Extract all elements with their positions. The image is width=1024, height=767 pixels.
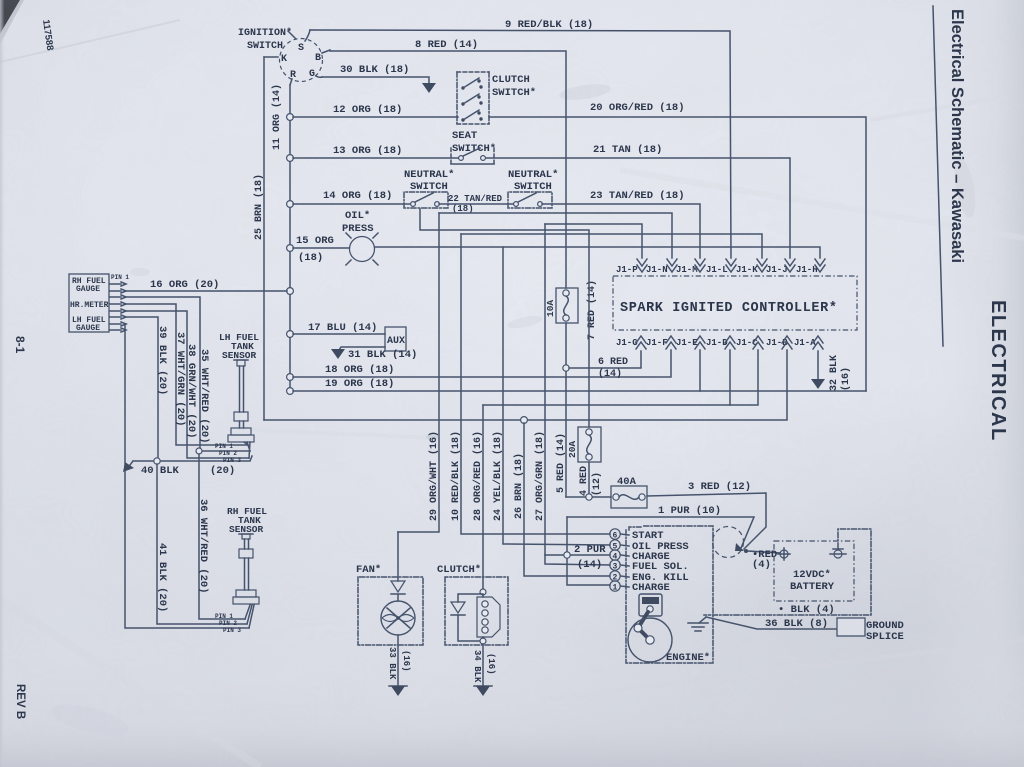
wire 7 RED (14) bbox=[566, 280, 598, 497]
pin J1-P bbox=[616, 259, 647, 275]
pin J1-C bbox=[736, 336, 763, 349]
wire 19 ORG (18) to J1-E and 20ORG loop bbox=[293, 350, 866, 391]
pin J1-K bbox=[736, 259, 767, 275]
wire to J1-H from lamp bbox=[375, 247, 820, 258]
pin J1-E bbox=[676, 336, 705, 349]
wire 12 ORG (18) bbox=[293, 104, 458, 117]
wire 23 TAN/RED (18) to J1-M bbox=[542, 190, 700, 258]
wire 6 RED (14) to J1-G bbox=[563, 351, 641, 380]
wire 27 ORG/GRN feed to J1-P bbox=[545, 224, 642, 258]
wire 17 BLU (14) bbox=[293, 322, 385, 334]
terminal bracket bbox=[629, 527, 641, 530]
wire 41 BLK (20) bbox=[156, 464, 247, 624]
engine piston bbox=[639, 594, 662, 616]
wire 25 BRN bottom run to J1-B bbox=[264, 350, 787, 423]
wire 28 ORG/RED (16) vertical bbox=[472, 405, 484, 589]
pin J1-D bbox=[706, 336, 735, 349]
pin J1-F bbox=[646, 336, 676, 349]
ground splice box bbox=[837, 618, 904, 643]
wire 29 ORG/WHT (16) vertical bbox=[398, 213, 440, 532]
ignition switch SW1 bbox=[238, 27, 330, 85]
wire 14 ORG (18) bbox=[293, 190, 411, 204]
node circles on 11 ORG bus bbox=[287, 114, 294, 121]
wire 10 RED/BLK feed to J1-K bbox=[461, 234, 762, 258]
pin J1-A bbox=[794, 336, 823, 349]
battery plus terminal bbox=[778, 548, 790, 560]
wire 2 PUR (14) vertical bbox=[545, 517, 610, 585]
wire 29 ORG/WHT feed to J1-N bbox=[439, 213, 672, 258]
pin J1-B bbox=[766, 336, 792, 349]
seat switch SW3 bbox=[451, 130, 496, 164]
wire 4 RED (12) bbox=[579, 462, 603, 497]
pin J1-J bbox=[766, 259, 795, 275]
starter M1 bbox=[713, 527, 744, 558]
neutral switch SW5 bbox=[508, 169, 558, 208]
clutch switch SW2 bbox=[457, 72, 536, 124]
wire 15 ORG (18) bbox=[293, 235, 349, 264]
pin J1-N bbox=[646, 259, 677, 275]
wire 5 RED (14) label bbox=[555, 433, 567, 493]
wire 35 WHT/RED (20) bbox=[126, 297, 250, 451]
wire 10 RED/BLK (18) vertical bbox=[450, 234, 610, 534]
wire 18 ORG (18) to J1-F bbox=[293, 350, 671, 377]
wire 36 WHT/RED (20) bbox=[196, 448, 245, 619]
wire 39 BLK (20) bbox=[125, 317, 249, 628]
wire 13 ORG (18) bbox=[293, 145, 461, 158]
pin J1-G bbox=[616, 336, 646, 349]
faint paper creases bbox=[0, 20, 180, 62]
fuse F3 40A bbox=[611, 476, 647, 508]
dark photo corner top-left bbox=[0, 0, 20, 34]
wire 40 BLK (20) with ground arrow bbox=[123, 456, 252, 477]
wire 5 RED horizontal to 40A bbox=[566, 494, 611, 500]
spark ignited controller U1 bbox=[613, 276, 857, 330]
pin J1-H bbox=[796, 259, 825, 275]
wire 37 WHT/GRN (20) bbox=[126, 304, 248, 445]
wire 22 TAN/RED (18) bbox=[439, 194, 514, 214]
wire 36 BLK (8) to ground splice bbox=[706, 617, 837, 630]
pin J1-M bbox=[676, 259, 705, 275]
engine terminal 6 START bbox=[610, 529, 664, 542]
gauge cluster box bbox=[69, 274, 129, 333]
wire 38 GRN/WHT (20) bbox=[126, 311, 249, 458]
paper texture noise bbox=[0, 0, 1, 1]
wire 1 PUR (10) to starter bbox=[567, 505, 754, 548]
engine terminal 3 FUEL SOL bbox=[610, 560, 689, 573]
engine terminal 5 OIL PRESS bbox=[610, 540, 689, 553]
pin J1-L bbox=[706, 259, 736, 275]
neutral switch SW4 bbox=[404, 169, 454, 208]
battery BT1 bbox=[774, 541, 854, 601]
wire 34 BLK (16) with ground arrow bbox=[472, 644, 496, 696]
wire 26 BRN (18) vertical bbox=[513, 423, 610, 576]
wire 11 ORG (14) vertical bbox=[271, 84, 290, 391]
engine terminal 4 CHARGE bbox=[610, 550, 670, 563]
wire 27 ORG/GRN (18) vertical bbox=[534, 224, 610, 565]
wire 8 RED (14) bbox=[330, 39, 566, 288]
fan motor M2 bbox=[356, 532, 423, 645]
engine E1 dash-dot box bbox=[626, 526, 713, 664]
gauge connector pins bbox=[110, 282, 126, 332]
wire 25 BRN (18) vertical bbox=[253, 57, 265, 420]
wire 28 ORG/RED top run to J1-D / J1-C bbox=[483, 350, 758, 405]
wire 20 ORG/RED (18) bbox=[489, 102, 866, 391]
oil pressure lamp B1 bbox=[342, 210, 378, 265]
starter feed arrowhead and dot bbox=[735, 543, 780, 571]
engine terminal 2 ENG KILL bbox=[610, 571, 689, 584]
engine ground bars bbox=[688, 617, 708, 631]
wire 9 RED/BLK (18) to J1-L bbox=[310, 19, 731, 258]
LH fuel tank sensor bbox=[215, 332, 259, 464]
wire 3 RED (12) to starter bbox=[647, 481, 766, 549]
battery negative cable dash-dot bbox=[704, 529, 871, 616]
wire 31 BLK (14) with ground arrow bbox=[331, 347, 417, 361]
engine terminal 1 CHARGE bbox=[610, 581, 670, 594]
wire 24 YEL/BLK (18) vertical bbox=[492, 247, 610, 545]
fuse F2 20A bbox=[420, 209, 601, 462]
AUX box bbox=[385, 327, 406, 351]
battery minus terminal bbox=[830, 549, 846, 558]
wire 32 BLK (16) ground from J1-A bbox=[811, 351, 852, 391]
wire 30 BLK (18) with ground arrow bbox=[322, 64, 436, 93]
engine crank and rod bbox=[628, 612, 672, 662]
margin rule line right bbox=[933, 6, 943, 346]
fuse F1 10A bbox=[545, 288, 578, 323]
wire 16 ORG (20) bbox=[126, 279, 287, 291]
clutch coil L1 bbox=[437, 564, 508, 645]
wire 21 TAN (18) to J1-J bbox=[486, 144, 790, 258]
RH fuel tank sensor bbox=[215, 506, 267, 634]
wire 33 BLK (16) with ground arrow bbox=[387, 635, 411, 696]
